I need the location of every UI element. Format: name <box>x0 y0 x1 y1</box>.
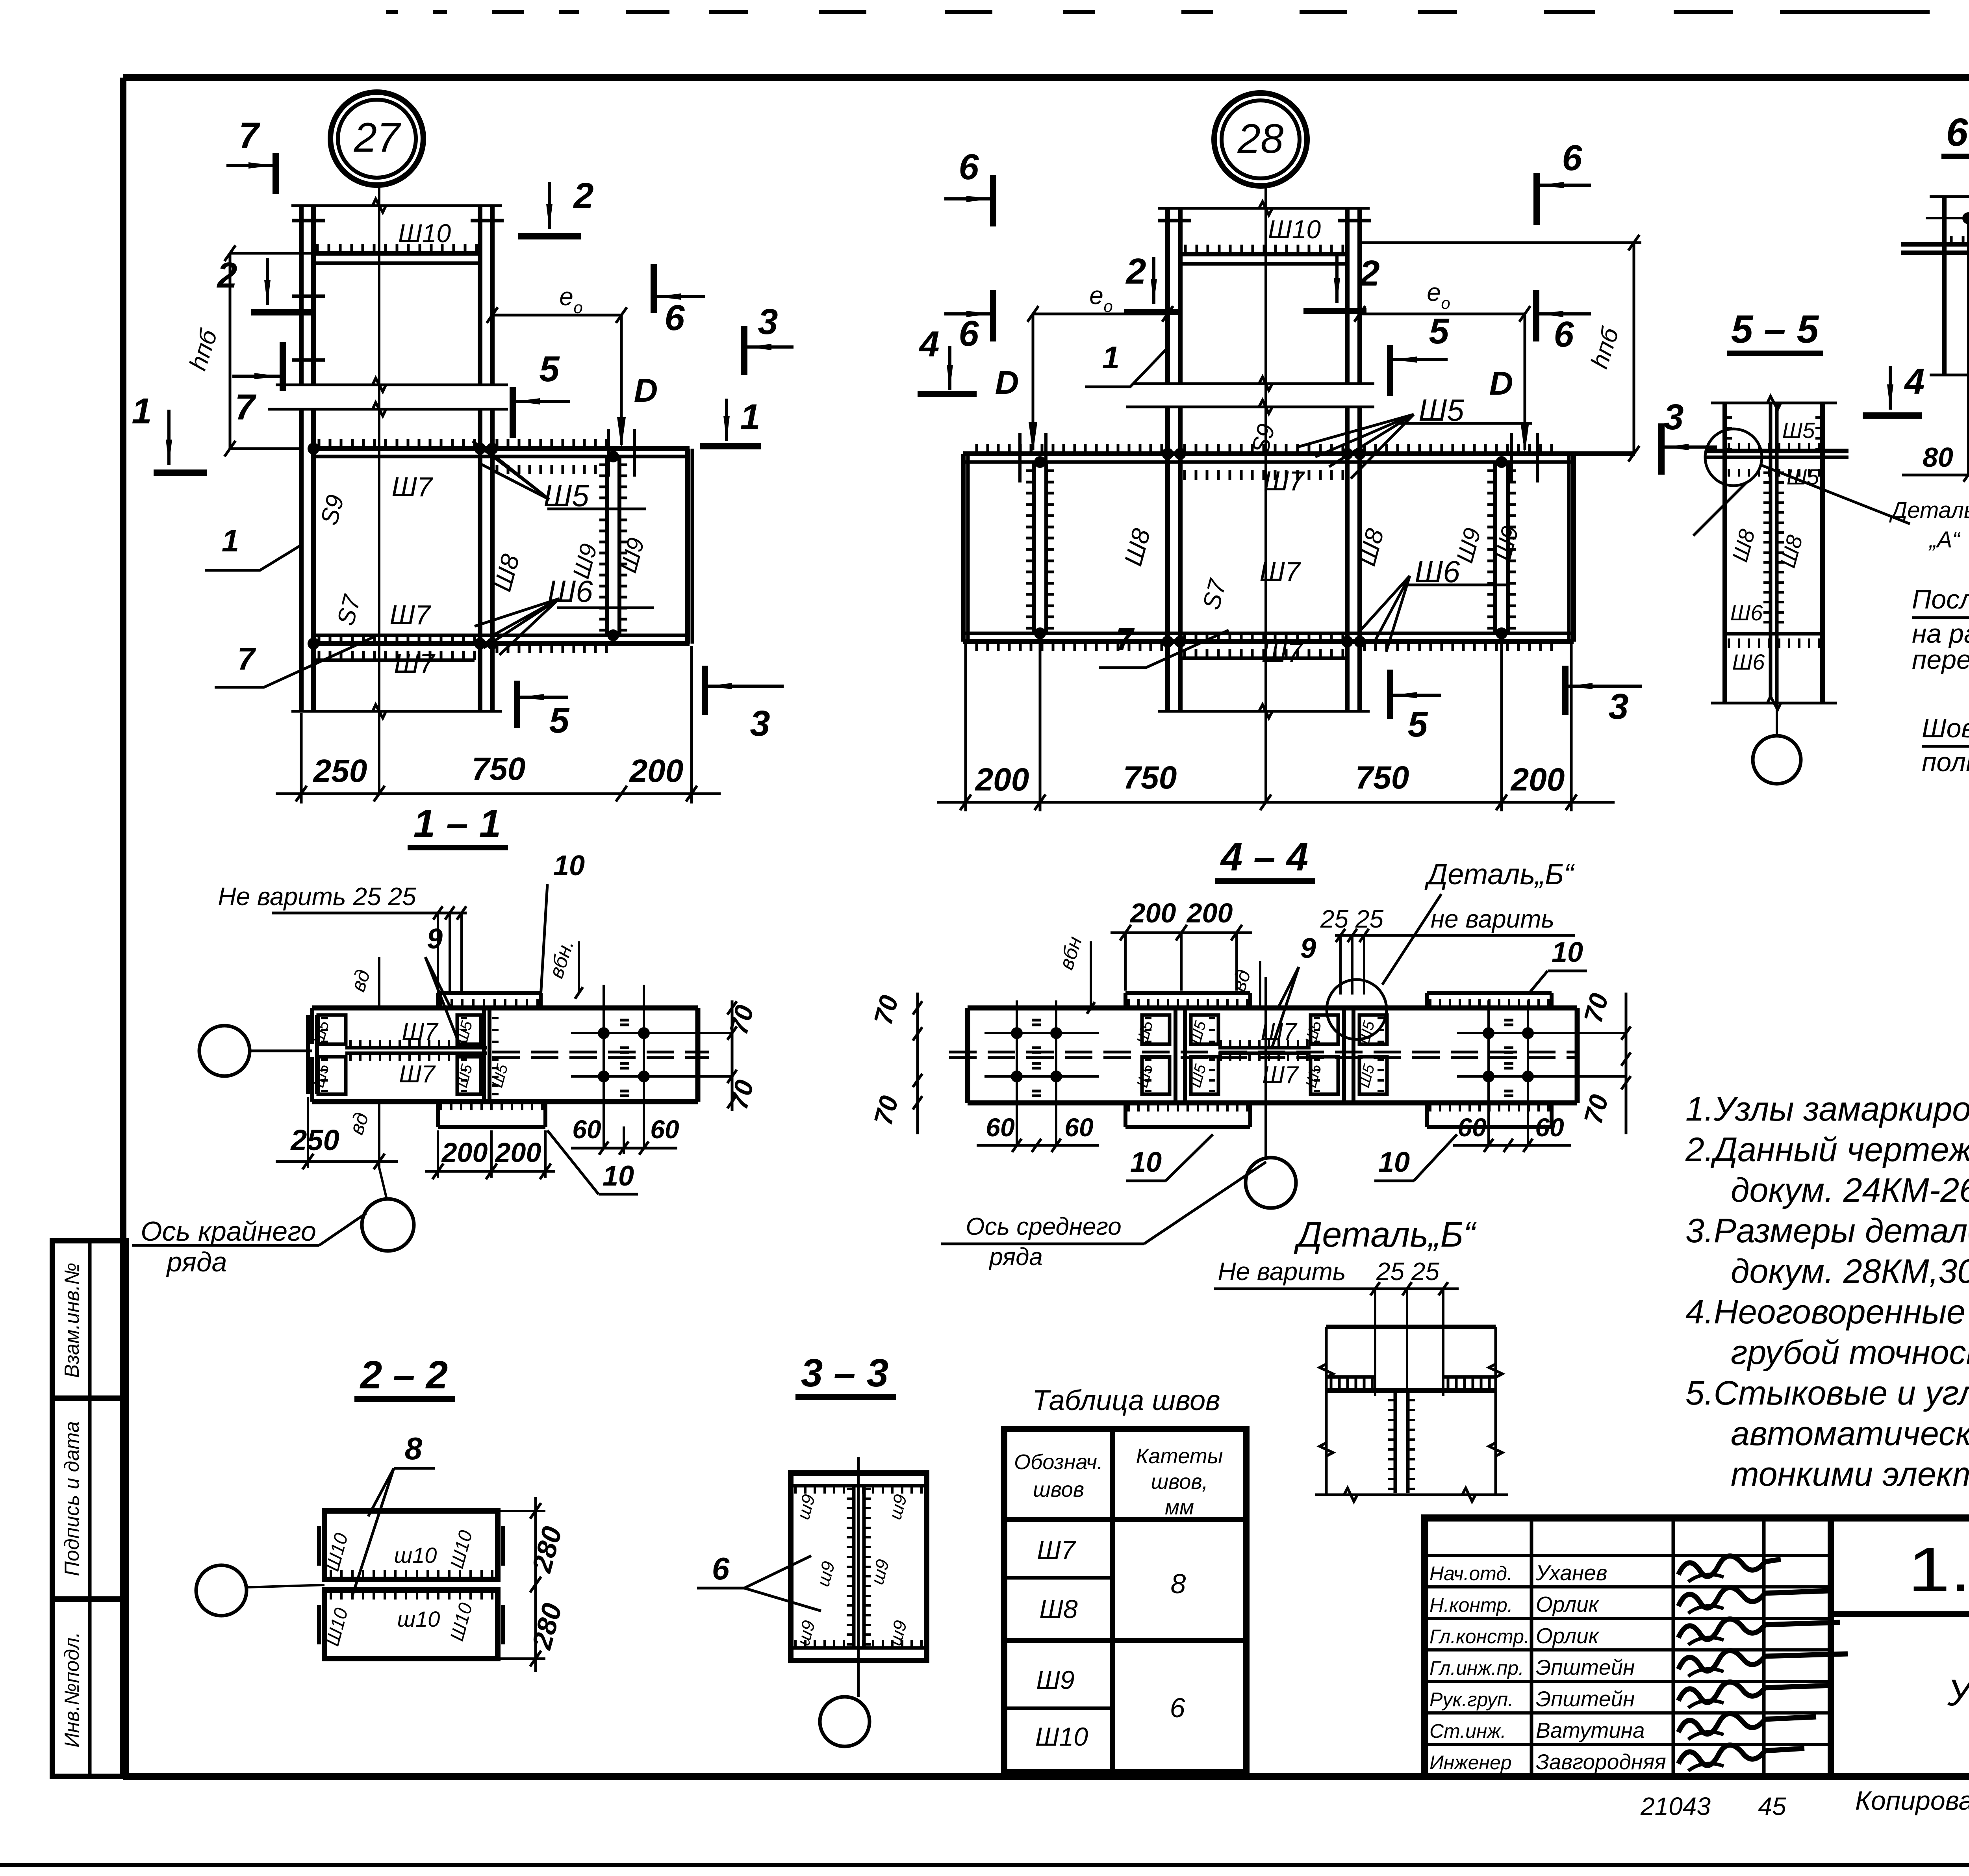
svg-text:Ш7: Ш7 <box>391 471 433 502</box>
node 28 section flag 2 left <box>1152 257 1155 304</box>
section 6-6 plate <box>1901 242 1969 247</box>
node 27 section flag 5 lower <box>519 696 568 699</box>
svg-text:D: D <box>995 364 1019 401</box>
node 27 section flag 1 right <box>725 399 728 441</box>
section 2-2 axis bubble <box>196 1565 247 1616</box>
node 28 dimension hpb <box>1633 243 1635 454</box>
node 28 column right flange <box>1345 208 1350 384</box>
svg-text:10: 10 <box>1552 937 1583 968</box>
svg-text:Ш7: Ш7 <box>402 1018 439 1045</box>
section 4-4 left column flange plan <box>1174 1008 1177 1103</box>
svg-text:Ш7: Ш7 <box>394 648 436 679</box>
svg-text:После сварки концы швов обрабо: После сварки концы швов обработать <box>1912 585 1969 614</box>
svg-text:750: 750 <box>1355 760 1409 796</box>
svg-text:3: 3 <box>1608 687 1628 727</box>
svg-text:Ш8: Ш8 <box>1039 1594 1078 1624</box>
svg-text:200: 200 <box>1129 898 1176 928</box>
svg-text:1.Узлы замаркированы на докум.: 1.Узлы замаркированы на докум. 11КМ, 12К… <box>1685 1090 1969 1128</box>
svg-text:Завгородняя: Завгородняя <box>1536 1750 1666 1774</box>
svg-text:ряда: ряда <box>166 1247 227 1277</box>
svg-text:1: 1 <box>740 397 760 437</box>
svg-text:3: 3 <box>758 302 778 342</box>
node 27 beam end plate <box>685 449 690 644</box>
node 28 bottom dimension line <box>937 801 1615 804</box>
svg-text:Ш10: Ш10 <box>1035 1722 1088 1751</box>
section 5-5 web <box>1769 403 1772 697</box>
svg-text:6: 6 <box>664 298 685 338</box>
svg-text:10: 10 <box>1378 1147 1410 1178</box>
node 27 dimension e0 <box>492 314 621 317</box>
node 28 section flag 6 left <box>944 312 992 315</box>
svg-text:Ось крайнего: Ось крайнего <box>141 1216 316 1247</box>
node 27 section flag 2 left <box>266 258 269 305</box>
node 27 main beam bottom flange <box>313 634 690 637</box>
svg-text:Эпштейн: Эпштейн <box>1536 1687 1635 1711</box>
node 28 section flag 5 mid <box>1392 358 1448 361</box>
svg-text:Ш5: Ш5 <box>1782 418 1815 443</box>
svg-text:e: e <box>1089 281 1103 310</box>
svg-text:ряда: ряда <box>988 1243 1043 1271</box>
svg-text:6: 6 <box>959 314 979 354</box>
node 27 column left flange <box>299 206 304 385</box>
svg-text:200: 200 <box>495 1137 541 1168</box>
svg-text:Взам.инв.№: Взам.инв.№ <box>61 1263 83 1378</box>
node 27 section flag 3 upper <box>746 345 794 349</box>
svg-text:1.424.3-7.3 23КМ: 1.424.3-7.3 23КМ <box>1908 1534 1969 1605</box>
node 27 column bottom break line <box>291 710 502 713</box>
svg-text:Рук.груп.: Рук.груп. <box>1429 1689 1513 1711</box>
svg-text:2: 2 <box>1125 251 1146 291</box>
section 5-5 top break line <box>1711 402 1837 405</box>
svg-text:Ш7: Ш7 <box>1262 1061 1299 1089</box>
node 27 section flag 7 mid <box>232 375 280 378</box>
node 27 column top break line <box>291 204 502 207</box>
svg-text:Ш7: Ш7 <box>1261 637 1303 668</box>
svg-text:60: 60 <box>1457 1113 1487 1142</box>
svg-text:9: 9 <box>427 923 443 955</box>
svg-text:5: 5 <box>1429 311 1450 351</box>
section 5-5 axis bubble <box>1753 736 1801 784</box>
svg-text:6: 6 <box>1554 314 1574 354</box>
section 1-1 dim 60 60 <box>571 1147 677 1150</box>
svg-text:10: 10 <box>1130 1147 1162 1178</box>
svg-text:ш10: ш10 <box>394 1543 437 1568</box>
svg-text:7: 7 <box>1116 622 1135 657</box>
svg-text:60: 60 <box>650 1115 679 1144</box>
svg-text:2: 2 <box>573 176 593 216</box>
svg-text:Ш7: Ш7 <box>1259 556 1301 587</box>
svg-text:Копировал: Копировал <box>1855 1786 1969 1816</box>
scan edge bottom line <box>0 1863 1969 1867</box>
svg-text:250: 250 <box>313 753 367 789</box>
svg-text:докум. 28КМ,30КМ.: докум. 28КМ,30КМ. <box>1731 1253 1969 1290</box>
section 2-2 side tabs <box>317 1526 321 1566</box>
node 27 axis circle <box>330 92 423 185</box>
node 28 flange bolt marks <box>1158 219 1191 223</box>
svg-text:тонкими электродами d=1,2-1,6: тонкими электродами d=1,2-1,6мм. <box>1731 1455 1969 1493</box>
svg-text:автоматической сваркой в углек: автоматической сваркой в углекислом газе <box>1731 1415 1969 1453</box>
node 28 load arrow D left <box>1032 314 1035 450</box>
node 28 section flag 2 right <box>1335 256 1339 303</box>
node 27 flange bolt marks <box>292 219 325 223</box>
svg-text:4: 4 <box>918 324 939 364</box>
section 1-1 dim 200 200 bottom <box>425 1170 555 1173</box>
node 27 dimension hpb <box>229 253 232 449</box>
title block doc number cell line <box>1831 1611 1969 1617</box>
svg-text:3 – 3: 3 – 3 <box>801 1351 888 1395</box>
svg-text:e: e <box>559 282 573 311</box>
node 28 dimension e0 left <box>1033 313 1168 315</box>
node 28 column axis line <box>1264 186 1267 802</box>
svg-text:3.Размеры деталей и сварных шв: 3.Размеры деталей и сварных швов приведе… <box>1685 1212 1969 1250</box>
svg-text:200: 200 <box>1186 898 1233 928</box>
svg-text:6: 6 <box>1170 1692 1185 1723</box>
svg-text:5: 5 <box>539 349 560 389</box>
section 1-1 mid flange plate plan <box>482 1008 486 1102</box>
svg-text:Ш10: Ш10 <box>1268 215 1321 244</box>
left attribute table <box>52 1241 126 1776</box>
svg-text:„А“: „А“ <box>1928 527 1961 553</box>
svg-text:o: o <box>573 298 582 317</box>
section 1-1 bolts <box>598 1027 610 1039</box>
node 27 section flag 5 upper <box>515 400 570 403</box>
node 27 bottom dimension line <box>276 792 721 795</box>
svg-text:Не варить: Не варить <box>1218 1257 1346 1286</box>
svg-text:10: 10 <box>603 1160 634 1192</box>
svg-text:1: 1 <box>222 523 239 558</box>
section 1-1 bolt weld marks <box>620 1019 629 1022</box>
node 27 top beam sh10 weld comb <box>316 244 319 253</box>
section 4-4 dim 70 70 left <box>916 993 919 1134</box>
section 6-6 column flanges <box>1942 197 1947 375</box>
svg-text:Ш7: Ш7 <box>1263 466 1305 496</box>
node 28 column bottom break line <box>1158 710 1370 713</box>
svg-text:Гл.инж.пр.: Гл.инж.пр. <box>1429 1657 1524 1679</box>
svg-text:Ватутина: Ватутина <box>1536 1718 1645 1742</box>
svg-text:Ш6: Ш6 <box>1732 649 1765 674</box>
svg-text:1: 1 <box>1102 340 1120 375</box>
node 28 section flag 4 left <box>948 346 951 390</box>
node 28 weld fillet blobs <box>1162 448 1174 460</box>
section 1-1 weld boxes Ш5 upper <box>318 1015 346 1044</box>
svg-text:25 25: 25 25 <box>1376 1257 1440 1286</box>
svg-text:8: 8 <box>1171 1568 1186 1599</box>
node 27 section flag 6 right <box>656 295 705 298</box>
section 1-1 left axis bubble <box>199 1026 250 1076</box>
svg-text:Узлы 27,28: Узлы 27,28 <box>1947 1672 1969 1714</box>
svg-text:6: 6 <box>712 1551 730 1586</box>
svg-text:на расстоянии 50мм до плавного: на расстоянии 50мм до плавного <box>1912 619 1969 649</box>
svg-text:Ось среднего: Ось среднего <box>966 1213 1122 1240</box>
node 28 column mid break band <box>1134 382 1374 385</box>
svg-text:45: 45 <box>1758 1792 1786 1820</box>
svg-text:e: e <box>1427 278 1441 306</box>
title block row lines <box>1425 1554 1831 1557</box>
node 28 section flag 6 right <box>1538 312 1591 315</box>
section 5-5 weld combs <box>1728 469 1730 477</box>
section 4-4 axis bubble <box>1246 1158 1296 1208</box>
section 3-3 box <box>791 1473 927 1661</box>
svg-text:грубой точности.: грубой точности. <box>1731 1334 1969 1371</box>
svg-text:o: o <box>1441 294 1450 312</box>
section 5-5 detail A circle <box>1705 429 1762 486</box>
section 5-5 flag 4 <box>1889 366 1892 410</box>
node 28 section flag 3 lower <box>1567 685 1642 688</box>
section 3-3 axis bubble <box>820 1697 870 1746</box>
svg-text:1: 1 <box>132 391 152 431</box>
svg-text:Ш10: Ш10 <box>398 219 451 248</box>
svg-text:7: 7 <box>239 115 260 156</box>
svg-text:4 – 4: 4 – 4 <box>1220 835 1308 879</box>
title block outer frame <box>1425 1518 1969 1776</box>
node 28 load arrow D right <box>1524 314 1526 450</box>
node 27 weld fillet blobs <box>308 443 319 455</box>
svg-text:Орлик: Орлик <box>1536 1592 1600 1616</box>
detail B flange hatched band <box>1326 1375 1375 1379</box>
node 28 section flag 6 top left <box>944 197 992 200</box>
svg-text:3: 3 <box>750 703 770 744</box>
svg-text:Ш7: Ш7 <box>399 1061 436 1088</box>
node 27 beam stiffener <box>605 456 609 635</box>
svg-text:250: 250 <box>290 1124 339 1156</box>
svg-text:Ш7: Ш7 <box>389 599 431 630</box>
svg-text:6: 6 <box>959 147 979 187</box>
svg-text:60: 60 <box>1535 1113 1564 1142</box>
node 28 column left flange <box>1165 208 1170 384</box>
scan edge top broken line <box>386 10 398 14</box>
svg-text:Инженер: Инженер <box>1429 1752 1512 1774</box>
svg-text:7: 7 <box>237 641 256 676</box>
svg-text:Ш9: Ш9 <box>1036 1665 1074 1694</box>
drawing frame <box>123 74 1969 81</box>
svg-text:полным проваром: полным проваром <box>1922 747 1969 777</box>
title block signatures scribbles <box>1678 1556 1781 1577</box>
svg-text:Ст.инж.: Ст.инж. <box>1429 1720 1506 1742</box>
section 5-5 lower flange line <box>1725 632 1823 636</box>
section 1-1 web double line <box>345 1046 487 1050</box>
svg-text:Эпштейн: Эпштейн <box>1536 1655 1635 1679</box>
section 4-4 top gusset left <box>1125 991 1250 995</box>
svg-text:200: 200 <box>441 1137 488 1168</box>
section 4-4 bottom gusset right <box>1427 1125 1552 1129</box>
svg-text:Не варить 25 25: Не варить 25 25 <box>218 882 416 911</box>
svg-text:D: D <box>1489 365 1513 402</box>
section 4-4 right column flange plan <box>1342 1008 1346 1103</box>
section 6-6 bolts <box>1962 212 1969 224</box>
svg-text:2: 2 <box>216 255 237 295</box>
node 27 section flag 2 right <box>548 182 551 229</box>
section 6-6 dim 80 80 bottom <box>1902 474 1969 477</box>
svg-text:750: 750 <box>472 751 526 787</box>
section 3-3 inner flange lines <box>791 1484 927 1488</box>
svg-text:60: 60 <box>986 1113 1015 1142</box>
svg-text:Н.контр.: Н.контр. <box>1429 1594 1513 1616</box>
svg-text:5: 5 <box>1407 704 1428 744</box>
node 27 main beam top flange <box>313 446 690 451</box>
node 28 beam left end plate <box>961 454 966 642</box>
svg-text:Нач.отд.: Нач.отд. <box>1429 1562 1513 1585</box>
node 27 section flag 3 lower <box>707 685 784 688</box>
node 28 section flag 6 top right <box>1539 184 1591 187</box>
detail B web <box>1394 1390 1397 1493</box>
weld table grid <box>1004 1429 1246 1772</box>
section 5-5 bottom break line <box>1711 702 1837 705</box>
section 2-2 lower box <box>324 1590 498 1659</box>
section 4-4 dim 70 70 right <box>1625 993 1628 1134</box>
node 27 column axis line <box>378 185 380 794</box>
svg-text:Ш7: Ш7 <box>1037 1535 1076 1564</box>
svg-text:200: 200 <box>1510 762 1565 798</box>
section 4-4 detail B circle <box>1327 980 1387 1039</box>
section 1-1 mid weld boxes Ш5 <box>457 1015 481 1044</box>
section 4-4 dim 60 60 left <box>977 1144 1099 1147</box>
svg-text:Уханев: Уханев <box>1535 1561 1607 1585</box>
svg-text:швов,: швов, <box>1151 1470 1208 1494</box>
section 1-1 dim 250 <box>276 1160 398 1163</box>
node 28 main beam top flange <box>963 451 1635 456</box>
detail B bottom break line <box>1315 1494 1508 1496</box>
svg-text:Орлик: Орлик <box>1536 1624 1600 1648</box>
svg-text:60: 60 <box>572 1115 601 1144</box>
section 1-1 top gusset plate <box>438 991 541 995</box>
svg-text:перехода от углового шва к: перехода от углового шва к <box>1912 645 1969 675</box>
section 1-1 beam centre dashed line <box>492 1051 709 1054</box>
node 28 beam right stiffener <box>1493 462 1497 633</box>
node 28 main beam bottom flange <box>963 632 1574 635</box>
svg-text:25 25: 25 25 <box>1320 905 1384 933</box>
svg-text:Таблица швов: Таблица швов <box>1032 1385 1220 1416</box>
svg-text:8: 8 <box>405 1431 423 1466</box>
svg-text:28: 28 <box>1237 116 1284 162</box>
svg-text:Подпись и дата: Подпись и дата <box>61 1421 83 1576</box>
section 1-1 dim 70 70 right <box>731 1000 734 1111</box>
section 4-4 bottom gusset left <box>1125 1125 1250 1129</box>
svg-text:4.Неоговоренные отверстия d=23: 4.Неоговоренные отверстия d=23мм под бол… <box>1685 1293 1969 1331</box>
detail B outline <box>1325 1327 1328 1495</box>
section 1-1 bottom gusset plate <box>438 1125 545 1129</box>
svg-text:7: 7 <box>235 387 256 427</box>
section 4-4 axis line <box>1264 977 1267 1160</box>
svg-text:10: 10 <box>553 850 585 881</box>
svg-text:750: 750 <box>1123 760 1177 796</box>
title block vertical lines left part <box>1530 1518 1533 1776</box>
svg-text:Катеты: Катеты <box>1136 1444 1223 1468</box>
section 4-4 top gusset right <box>1427 991 1552 995</box>
svg-text:o: o <box>1103 297 1112 315</box>
svg-text:Обознач.: Обознач. <box>1014 1450 1103 1474</box>
node 27 beam bolt tick marks <box>607 429 610 477</box>
svg-text:докум. 24КМ-26КМ.: докум. 24КМ-26КМ. <box>1731 1171 1969 1209</box>
svg-text:мм: мм <box>1165 1496 1194 1519</box>
svg-text:5 – 5: 5 – 5 <box>1731 307 1819 351</box>
section 6-6 plate weld marks <box>1950 236 1953 243</box>
svg-text:4: 4 <box>1904 362 1925 402</box>
section 1-1 weld boxes Ш5 lower <box>318 1057 346 1094</box>
svg-text:Ш6: Ш6 <box>1730 600 1763 625</box>
node 27 load arrow D <box>620 315 623 445</box>
node 28 axis circle <box>1214 93 1307 186</box>
svg-text:не варить: не варить <box>1431 905 1554 933</box>
svg-text:Гл.констр.: Гл.констр. <box>1429 1625 1530 1648</box>
svg-text:6: 6 <box>1562 138 1582 178</box>
section 5-5 flanges <box>1722 403 1727 703</box>
svg-text:27: 27 <box>354 115 401 161</box>
section 4-4 dim 200 200 top <box>1111 932 1252 934</box>
node 28 top beam sh10 flange lines <box>1180 252 1347 256</box>
section 4-4 left bolts <box>1011 1027 1023 1039</box>
svg-text:3: 3 <box>1663 397 1683 437</box>
node 27 section flag 1 left <box>167 410 171 465</box>
node 28 column top break line <box>1158 207 1370 210</box>
svg-text:1 – 1: 1 – 1 <box>413 802 501 846</box>
node 28 beam left stiffener <box>1032 462 1036 633</box>
section 4-4 beam outline <box>968 1006 1577 1011</box>
section 4-4 web double line <box>1218 1046 1311 1050</box>
node 28 dimension e0 right <box>1360 313 1525 315</box>
svg-text:Инв.№подл.: Инв.№подл. <box>61 1632 83 1748</box>
svg-text:60: 60 <box>1064 1113 1094 1142</box>
svg-text:2 – 2: 2 – 2 <box>360 1353 448 1397</box>
node 28 beam bolt tick marks <box>1018 433 1022 482</box>
svg-text:5.Стыковые и угловые (ш5) швы: 5.Стыковые и угловые (ш5) швы выполнять … <box>1685 1374 1969 1412</box>
svg-text:21043: 21043 <box>1640 1792 1711 1820</box>
svg-text:Деталь„Б“: Деталь„Б“ <box>1294 1215 1477 1254</box>
node 27 top beam sh10 flange lines <box>313 251 480 256</box>
section 1-1 column flange plate plan <box>306 1015 310 1094</box>
svg-text:D: D <box>634 372 658 409</box>
svg-text:9: 9 <box>1300 933 1316 964</box>
section 4-4 dim 60 60 right <box>1453 1144 1571 1147</box>
svg-text:ш10: ш10 <box>397 1607 440 1631</box>
section 2-2 upper box <box>324 1511 498 1579</box>
svg-text:200: 200 <box>629 753 684 789</box>
section 1-1 axis bubble bottom <box>362 1199 414 1251</box>
section 4-4 right bolts <box>1483 1027 1494 1039</box>
svg-text:2: 2 <box>1359 253 1379 293</box>
node 27 column right flange <box>478 206 482 385</box>
section 4-4 weld boxes around left flange <box>1142 1015 1170 1044</box>
node 28 section flag 5 lower <box>1392 694 1441 697</box>
svg-text:80: 80 <box>1923 442 1953 473</box>
node 28 section flag 3 right <box>1663 445 1717 449</box>
section 4-4 weld boxes around right flange <box>1311 1015 1338 1044</box>
section 2-2 dim 280 280 <box>534 1497 537 1672</box>
svg-text:Шов варить с: Шов варить с <box>1922 713 1969 743</box>
node 28 beam right end plate <box>1567 454 1571 642</box>
svg-text:2.Данный чертеж рассматривать: 2.Данный чертеж рассматривать совместно … <box>1685 1131 1969 1169</box>
section 5-5 plate <box>1705 449 1848 453</box>
svg-text:200: 200 <box>975 762 1029 798</box>
node 27 section flag 7 top <box>226 164 274 167</box>
svg-text:швов: швов <box>1033 1478 1084 1501</box>
svg-text:Деталь„Б“: Деталь„Б“ <box>1424 858 1575 891</box>
node 27 column mid break band <box>276 384 508 386</box>
svg-text:6 – 6: 6 – 6 <box>1946 110 1969 154</box>
section 3-3 web <box>852 1486 856 1648</box>
section 3-3 axis line <box>857 1457 860 1697</box>
section 1-1 beam flange outline <box>312 1006 698 1011</box>
section 4-4 centre dashed line <box>949 1051 1577 1054</box>
svg-text:5: 5 <box>549 700 570 740</box>
node 28 top beam sh10 weld comb <box>1184 245 1187 254</box>
